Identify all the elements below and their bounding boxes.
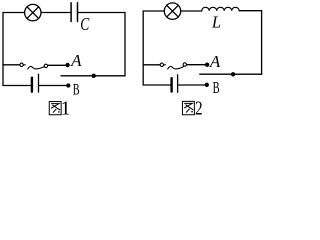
svg-text:2: 2: [195, 98, 203, 119]
svg-text:B: B: [73, 81, 80, 98]
svg-text:A: A: [209, 52, 221, 71]
svg-text:C: C: [80, 14, 90, 34]
svg-text:B: B: [213, 78, 220, 97]
svg-text:L: L: [211, 13, 221, 32]
svg-text:A: A: [70, 51, 82, 70]
svg-text:1: 1: [61, 98, 71, 119]
